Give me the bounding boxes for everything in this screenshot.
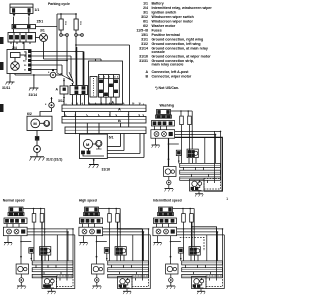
label 3/12 <box>58 99 65 103</box>
svg-text:3/1: 3/1 <box>40 29 45 33</box>
wire ignition to relay <box>14 42 25 50</box>
ground 31/14 <box>29 75 39 91</box>
wire strip to ignition switch <box>14 29 29 33</box>
ground wire 31/11 from relay <box>6 74 15 85</box>
label 3/1 <box>40 29 45 33</box>
svg-text:*) Not US/Can.: *) Not US/Can. <box>155 86 179 90</box>
svg-text:11/5–/8: 11/5–/8 <box>136 28 148 32</box>
svg-text:53e: 53e <box>23 60 27 62</box>
svg-text:High speed: High speed <box>79 199 97 203</box>
label 6/1 <box>109 136 114 140</box>
fuse 11/6 <box>59 14 63 34</box>
svg-text:6/1: 6/1 <box>143 19 148 23</box>
svg-text:15/1: 15/1 <box>37 20 44 24</box>
relay pin labels <box>23 51 27 71</box>
windscreen wiper switch 3/12 <box>89 61 123 104</box>
svg-text:1/1: 1/1 <box>143 1 148 5</box>
svg-text:53: 53 <box>24 65 27 67</box>
svg-text:11/6: 11/6 <box>64 21 66 26</box>
battery 1/1 <box>10 4 33 17</box>
label 15/1 <box>37 20 44 24</box>
wire connector to washer motor <box>40 108 52 116</box>
wires bus bars to wiper motor right side <box>107 134 144 158</box>
label 2/4 <box>12 46 17 50</box>
svg-text:30: 30 <box>24 51 27 53</box>
bus bar A pin numbers <box>64 102 142 105</box>
svg-text:Connector, left A-post: Connector, left A-post <box>152 70 190 74</box>
svg-text:A: A <box>145 70 148 74</box>
svg-text:Washer motor: Washer motor <box>152 24 176 28</box>
svg-text:31/14: 31/14 <box>29 93 38 97</box>
wire merge diagonals into bundle <box>57 72 74 83</box>
svg-text:M: M <box>33 121 37 126</box>
svg-text:31/11: 31/11 <box>2 86 10 90</box>
title Normal speed <box>3 199 25 203</box>
svg-text:31/16: 31/16 <box>139 54 148 58</box>
wire battery to terminal strip <box>14 17 29 25</box>
connector A (left A-post) <box>60 78 68 105</box>
svg-text:A: A <box>56 88 59 92</box>
bundle thick wire 1 <box>75 47 77 86</box>
title Washing <box>160 104 174 108</box>
connector on ground run <box>50 69 56 78</box>
label A (bus bar A) <box>112 101 115 105</box>
connector pair below fuse 11/6 <box>60 34 69 47</box>
fuse 11/5 <box>74 14 78 34</box>
wire terminal strip to fuse supply <box>36 26 58 28</box>
svg-text:3/12: 3/12 <box>141 15 148 19</box>
connector pair below fuse 11/5 <box>75 34 84 47</box>
label 6/2 <box>27 112 32 116</box>
bus bar C (lower connector bar) <box>65 127 146 134</box>
svg-text:11/5: 11/5 <box>79 21 81 26</box>
svg-text:15: 15 <box>24 56 27 58</box>
intermittent speed sub-circuit <box>153 207 224 294</box>
label B in bus bar <box>118 118 121 123</box>
svg-text:B: B <box>145 75 148 79</box>
wire relay pin 31 to right (ground run) <box>15 73 61 76</box>
title Parking cycle <box>48 2 70 6</box>
svg-text:Windscreen wiper motor: Windscreen wiper motor <box>152 19 194 23</box>
svg-text:Intermittent relay, windscreen: Intermittent relay, windscreen wiper <box>152 6 213 10</box>
label 1/1 <box>35 8 40 12</box>
intermittent relay 2/4 <box>7 50 31 74</box>
normal speed sub-circuit <box>3 207 74 294</box>
legend component list <box>136 1 212 90</box>
washer ground connector circle <box>34 140 41 157</box>
connector row at switch input <box>70 86 88 95</box>
label 31/16 <box>102 168 111 172</box>
svg-text:31/2: 31/2 <box>141 42 148 46</box>
wire bundle to connector row arrows <box>72 83 74 86</box>
wires relay outputs to wire bundle <box>31 51 84 70</box>
svg-text:Positive terminal: Positive terminal <box>152 33 180 37</box>
bus bar A <box>62 104 146 112</box>
bus bar B pin numbers <box>65 114 145 117</box>
svg-text:console: console <box>152 50 165 54</box>
svg-text:31/14: 31/14 <box>139 46 148 50</box>
svg-text:4: 4 <box>98 114 100 117</box>
positive terminal 15/1 <box>12 25 36 29</box>
svg-text:Fuses: Fuses <box>152 28 162 32</box>
wiper motor ground connector <box>93 159 95 165</box>
wires switch to bus bar A <box>73 95 117 105</box>
svg-text:Windscreen wiper switch: Windscreen wiper switch <box>152 15 194 19</box>
svg-text:Intermittent speed: Intermittent speed <box>153 199 182 203</box>
label 11/5 (vertical) <box>79 21 81 26</box>
svg-text:6/1: 6/1 <box>109 136 114 140</box>
ignition switch 3/1 <box>8 33 36 45</box>
svg-text:31: 31 <box>24 69 27 71</box>
svg-text:15/1: 15/1 <box>141 33 148 37</box>
wire supply bus above fuses <box>57 13 77 26</box>
label 31/11 <box>2 86 10 90</box>
intermittent speed highlighted current path <box>191 222 193 247</box>
svg-text:4: 4 <box>82 102 84 105</box>
label 31/2 (31/1) <box>46 158 62 162</box>
bus bar B <box>62 115 146 123</box>
svg-text:Ground connection, left wing: Ground connection, left wing <box>152 42 201 46</box>
svg-text:M: M <box>86 142 90 147</box>
label A (connector) <box>56 88 59 92</box>
svg-text:3/1: 3/1 <box>143 10 148 14</box>
svg-text:2/4: 2/4 <box>143 6 148 10</box>
svg-text:Ignition switch: Ignition switch <box>152 10 177 14</box>
svg-text:Ground connection, at wiper mo: Ground connection, at wiper motor <box>152 54 212 58</box>
washer motor pin <box>35 131 39 141</box>
label M in wiper motor <box>86 142 90 147</box>
ground 31/2 (31/1) <box>30 157 45 161</box>
svg-text:1/1: 1/1 <box>35 8 40 12</box>
washing sub-circuit <box>151 110 222 197</box>
windscreen wiper motor 6/1 <box>80 134 108 158</box>
svg-text:Normal speed: Normal speed <box>3 199 25 203</box>
ground 31/16 <box>89 165 99 169</box>
svg-text:main relay console: main relay console <box>152 62 184 66</box>
svg-text:31/1: 31/1 <box>141 37 148 41</box>
svg-text:Washing: Washing <box>160 104 174 108</box>
asterisk note at ground-run connector <box>48 71 50 75</box>
wire ignition switch to wiper switch (node at y59) <box>44 42 102 61</box>
svg-text:Battery: Battery <box>152 1 164 5</box>
bundle thick wire 2 <box>83 52 85 86</box>
wire fuse 11/5 output to switch top (long right run) <box>75 44 129 105</box>
svg-text:*: * <box>45 103 47 107</box>
intermittent speed wire loop <box>191 226 217 261</box>
page number 1 <box>226 196 229 201</box>
svg-text:6/2: 6/2 <box>143 24 148 28</box>
svg-text:31/31: 31/31 <box>139 59 148 63</box>
wire bundle verticals down to merge <box>57 26 76 76</box>
high speed highlighted current path <box>118 222 143 261</box>
high speed sub-circuit <box>79 207 150 294</box>
label 11/6 (vertical) <box>64 21 66 26</box>
label M in washer motor <box>33 121 37 126</box>
page edge mark 3 <box>0 104 4 112</box>
washing highlighted current path <box>169 137 223 191</box>
ignition key symbol (circle with cross) <box>35 34 48 42</box>
wires between bus bars <box>65 112 129 135</box>
title Intermittent speed <box>153 199 182 203</box>
switch pin numbers <box>99 76 119 79</box>
svg-text:Connector, wiper motor: Connector, wiper motor <box>152 75 192 79</box>
svg-text:1: 1 <box>226 196 229 201</box>
asterisk note at washer connector <box>45 103 47 107</box>
intermittent speed dashed control line <box>180 237 204 251</box>
title High speed <box>79 199 97 203</box>
label A in bus bar <box>118 107 121 112</box>
svg-text:31/2 (31/1): 31/2 (31/1) <box>46 158 62 162</box>
svg-text:Ground connection, right wing: Ground connection, right wing <box>152 37 204 41</box>
label 31/14 <box>29 93 38 97</box>
svg-text:*: * <box>48 71 50 75</box>
washer feed connector (circle with dot) <box>49 97 54 108</box>
washer motor 6/2 <box>27 116 52 130</box>
svg-text:A: A <box>118 107 121 112</box>
svg-text:Parking cycle: Parking cycle <box>48 2 70 6</box>
svg-text:31/16: 31/16 <box>102 168 111 172</box>
page edge mark 1 <box>0 37 4 44</box>
normal speed highlighted current path <box>42 222 47 288</box>
svg-text:6/2: 6/2 <box>27 112 32 116</box>
page edge mark 2 <box>0 62 4 70</box>
svg-text:B: B <box>118 118 121 123</box>
